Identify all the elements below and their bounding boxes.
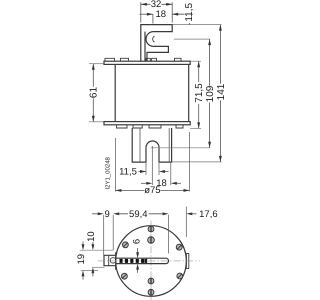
svg-text:19: 19 — [76, 254, 87, 265]
svg-text:ø75: ø75 — [144, 185, 160, 196]
svg-text:17,6: 17,6 — [199, 209, 218, 220]
svg-text:I2Y1_00248: I2Y1_00248 — [105, 156, 112, 189]
svg-text:109: 109 — [205, 85, 216, 102]
svg-text:10: 10 — [86, 231, 97, 242]
svg-text:141: 141 — [216, 83, 227, 100]
svg-text:71,5: 71,5 — [194, 83, 205, 103]
svg-text:9: 9 — [105, 209, 110, 220]
svg-text:61: 61 — [89, 87, 100, 99]
svg-text:11,5: 11,5 — [184, 3, 195, 22]
svg-text:18: 18 — [156, 9, 167, 20]
svg-text:59,4: 59,4 — [129, 209, 148, 220]
svg-text:11,5: 11,5 — [119, 167, 137, 178]
svg-text:6: 6 — [132, 239, 143, 244]
